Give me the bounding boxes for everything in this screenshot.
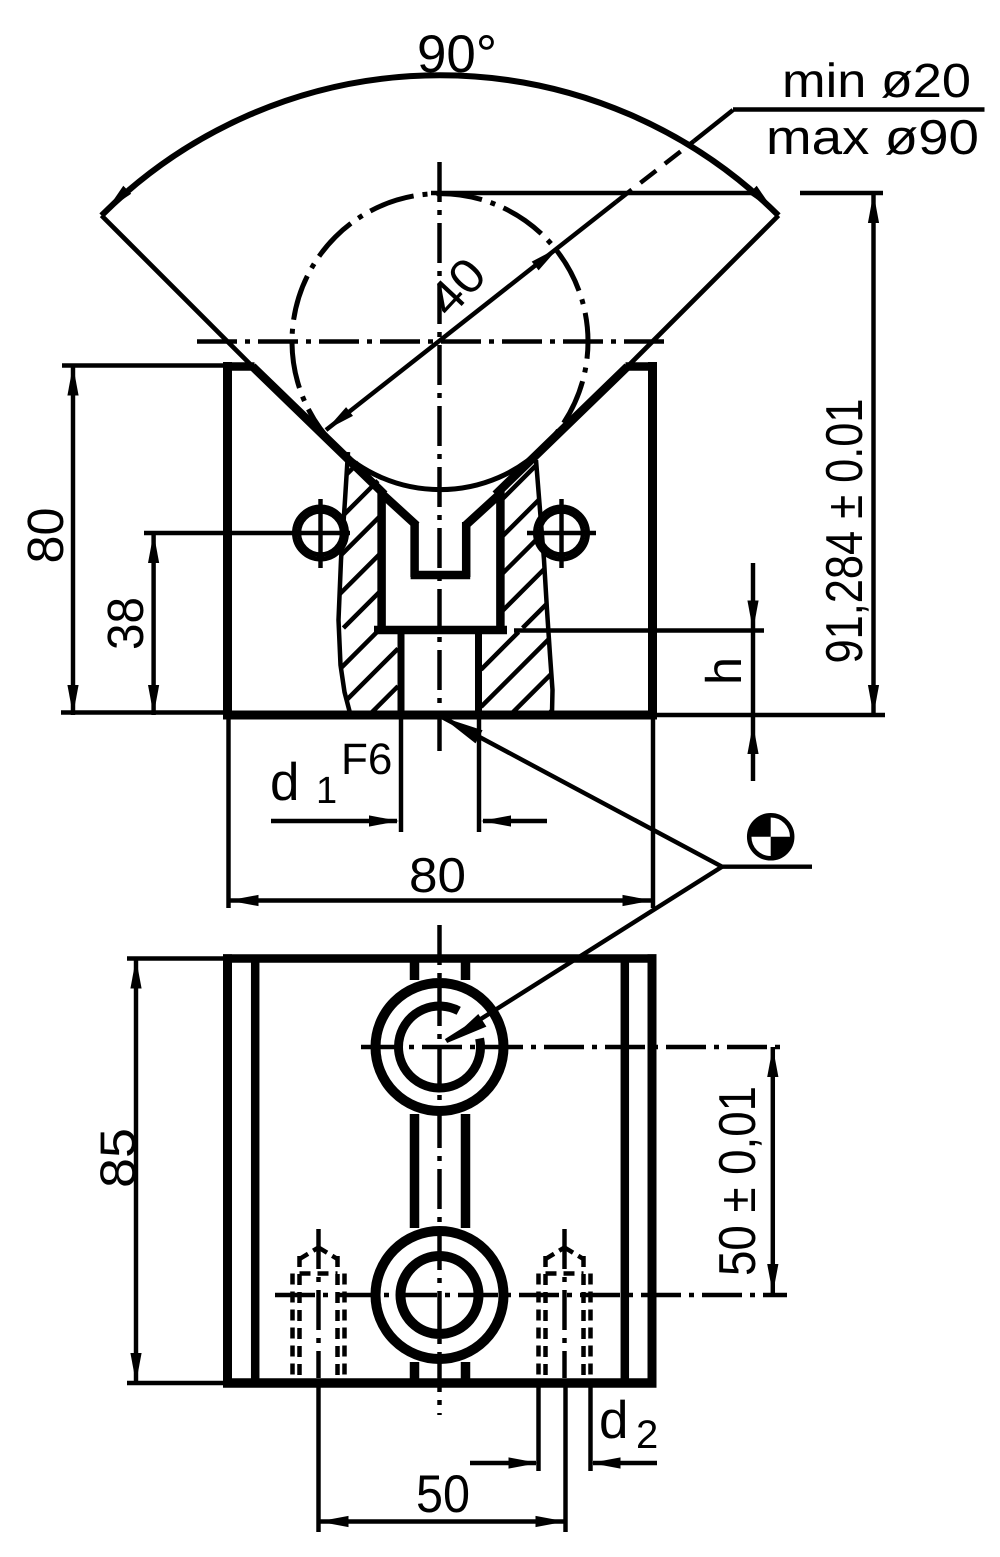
svg-text:h: h	[696, 657, 752, 685]
svg-text:38: 38	[97, 597, 154, 650]
svg-text:85: 85	[90, 1128, 146, 1188]
svg-text:91,284 ± 0.01: 91,284 ± 0.01	[816, 399, 874, 664]
svg-text:90°: 90°	[417, 25, 497, 84]
svg-text:80: 80	[409, 849, 466, 903]
svg-text:max ø90: max ø90	[766, 111, 979, 165]
svg-text:2: 2	[636, 1413, 658, 1457]
svg-text:F6: F6	[341, 735, 392, 784]
svg-text:1: 1	[316, 770, 337, 812]
svg-text:min ø20: min ø20	[782, 55, 971, 108]
svg-text:50 ± 0,01: 50 ± 0,01	[709, 1086, 767, 1276]
svg-text:50: 50	[416, 1465, 470, 1524]
svg-text:80: 80	[17, 508, 74, 564]
svg-text:d: d	[270, 753, 299, 812]
svg-text:d: d	[599, 1391, 628, 1450]
